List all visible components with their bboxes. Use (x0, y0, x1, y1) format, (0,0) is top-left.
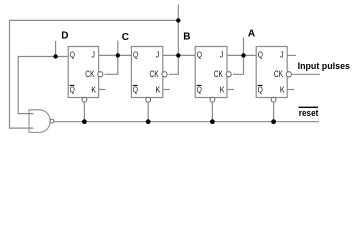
flip-flop C pin CK (150, 69, 159, 79)
node C junction dot (116, 53, 120, 57)
flip-flop B pin K (220, 85, 225, 95)
wire: flip-flop B clear to reset rail (211, 102, 213, 122)
flip-flop B pin J (220, 50, 224, 60)
node B junction dot on top wire (176, 18, 180, 22)
node C stub (117, 41, 119, 56)
flip-flop A clear bubble (271, 97, 276, 102)
flip-flop A J stub (287, 54, 296, 56)
svg-text:Q: Q (258, 50, 263, 60)
svg-text:C: C (122, 32, 129, 43)
flip-flop B CK bubble (226, 72, 231, 77)
svg-text:J: J (156, 50, 160, 60)
flip-flop C pin K (156, 85, 161, 95)
node B junction dot (176, 53, 180, 57)
flip-flop C CK bubble (162, 72, 167, 77)
flip-flop B pin Qbar (197, 85, 203, 95)
flip-flop C box (131, 47, 162, 98)
NAND gate G1 (29, 110, 50, 133)
svg-text:CK: CK (150, 69, 159, 79)
junction dot rail at C clear (146, 119, 151, 124)
wire: C.J to B.Q (163, 54, 195, 56)
svg-text:CK: CK (85, 69, 94, 79)
junction dot rail at A clear (271, 119, 276, 124)
svg-text:J: J (280, 50, 284, 60)
flip-flop A pin CK (274, 69, 283, 79)
svg-text:reset: reset (299, 108, 319, 118)
wire: node D to NAND top input (18, 57, 68, 114)
flip-flop D pin Qbar (70, 85, 76, 95)
svg-text:Q: Q (258, 85, 263, 95)
svg-text:J: J (220, 50, 224, 60)
svg-text:CK: CK (274, 69, 283, 79)
flip-flop B pin CK (214, 69, 223, 79)
flip-flop B pin Q (197, 50, 202, 60)
node D label (61, 31, 68, 42)
node B label (183, 32, 190, 43)
NAND gate output bubble (50, 119, 54, 123)
junction dot rail at B clear (210, 119, 215, 124)
svg-text:K: K (220, 85, 225, 95)
wire: D.J to C.Q (99, 54, 132, 56)
node A stub (243, 38, 245, 56)
wire: flip-flop A clear to reset rail (273, 102, 275, 122)
svg-text:Input pulses: Input pulses (298, 61, 350, 72)
wire: flip-flop C clear to reset rail (147, 102, 149, 122)
svg-text:K: K (91, 85, 96, 95)
svg-text:CK: CK (214, 69, 223, 79)
flip-flop A box (256, 47, 287, 98)
svg-text:J: J (91, 50, 95, 60)
flip-flop A pin Q (258, 50, 263, 60)
flip-flop A CK bubble (286, 72, 291, 77)
flip-flop A pin Qbar (258, 85, 264, 95)
flip-flop D pin J (91, 50, 95, 60)
junction dot rail at D clear (82, 119, 87, 124)
node A label (248, 29, 255, 40)
svg-text:Q: Q (197, 85, 202, 95)
wire: flip-flop D clear to reset rail (83, 102, 85, 122)
flip-flop A pin K (280, 85, 285, 95)
flip-flop D pin Q (70, 50, 75, 60)
wire: left vertical down to NAND bottom input (10, 20, 34, 128)
svg-text:K: K (280, 85, 285, 95)
label: Input pulses (298, 61, 350, 72)
flip-flop C pin Qbar (133, 85, 139, 95)
flip-flop A pin J (280, 50, 284, 60)
label: reset (active low) (299, 107, 319, 118)
flip-flop C pin Q (133, 50, 138, 60)
node A junction dot (241, 53, 245, 57)
node C label (122, 32, 129, 43)
wire: input pulses to A CK (291, 73, 320, 75)
svg-text:A: A (248, 29, 255, 40)
flip-flop A K stub (287, 89, 294, 91)
wire: D CK hook to node C (105, 55, 118, 74)
flip-flop D box (68, 47, 98, 98)
flip-flop D pin CK (85, 69, 94, 79)
svg-text:Q: Q (70, 85, 75, 95)
svg-text:K: K (156, 85, 161, 95)
flip-flop B clear bubble (210, 97, 215, 102)
svg-text:Q: Q (197, 50, 202, 60)
node D junction dot (53, 54, 57, 58)
wire: B CK hook to node A (233, 55, 244, 74)
flip-flop D K stub (99, 89, 106, 91)
flip-flop D clear bubble (82, 97, 87, 102)
flip-flop B K stub (227, 89, 234, 91)
node D stub (55, 41, 57, 57)
flip-flop C K stub (163, 89, 170, 91)
flip-flop D CK bubble (98, 72, 103, 77)
node B vertical stub through top wire (177, 5, 179, 56)
wire: B.J to A.Q (227, 54, 256, 56)
svg-text:D: D (61, 31, 68, 42)
flip-flop C clear bubble (146, 97, 151, 102)
flip-flop C pin J (156, 50, 160, 60)
wire: reset rail from NAND output across to reset label (54, 121, 319, 123)
svg-text:Q: Q (133, 85, 138, 95)
wire: top feedback line to node B (10, 19, 179, 21)
svg-text:Q: Q (133, 50, 138, 60)
svg-text:Q: Q (70, 50, 75, 60)
flip-flop D pin K (91, 85, 96, 95)
flip-flop B box (195, 47, 227, 98)
svg-text:B: B (183, 32, 190, 43)
wire: C CK hook to node B (169, 55, 179, 74)
